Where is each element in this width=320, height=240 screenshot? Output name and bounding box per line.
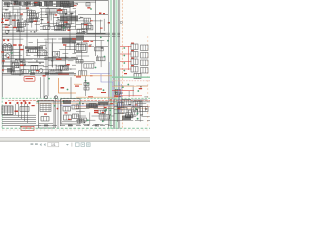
red cluster a bbox=[94, 110, 99, 111]
green RJ1 bbox=[79, 102, 81, 104]
module box M2 outline bbox=[61, 99, 80, 125]
red label in upper-middle wiring field #1 bbox=[55, 14, 57, 15]
orange dashed rail right edge bbox=[147, 36, 149, 128]
orange corner wire bbox=[112, 85, 148, 87]
green test point in bottom-right wiring field #2 bbox=[109, 110, 111, 112]
red feed wire row 1 bbox=[120, 46, 132, 48]
orange band wire 2 bbox=[74, 83, 82, 85]
connector X1 block bbox=[44, 1, 53, 6]
drop wire V44 bbox=[43, 77, 45, 98]
fuse label 10A bbox=[5, 27, 9, 28]
red band rail bbox=[8, 99, 150, 101]
green test point in bottom-right wiring field #1 bbox=[105, 109, 107, 111]
page rail 5 bbox=[119, 0, 121, 129]
terminal bullet T6 bbox=[28, 102, 30, 104]
relay row junction 1 bbox=[123, 47, 125, 49]
label A4r bbox=[72, 38, 76, 39]
bus wire row A bbox=[2, 58, 44, 60]
statusbar white zone bbox=[0, 131, 150, 150]
blue band rail bbox=[60, 104, 140, 106]
inter-box wire Va bbox=[55, 96, 57, 128]
relay label K8 bbox=[64, 22, 68, 23]
margin symbol glyph bbox=[120, 21, 122, 23]
fuse label 7.5A bbox=[13, 27, 17, 28]
long bus V27 bbox=[26, 2, 28, 56]
relay row label 1 bbox=[131, 43, 134, 44]
shield box U1 bbox=[75, 43, 88, 53]
relay label extra bbox=[124, 73, 127, 74]
relay K34 block bbox=[140, 107, 148, 112]
module M1 wire a bbox=[39, 123, 53, 125]
bottom row blob 2 bbox=[68, 124, 73, 126]
bus wire row B bbox=[2, 61, 44, 63]
terminal bullet T4 bbox=[20, 102, 22, 104]
relay label K11 bbox=[20, 65, 24, 66]
schematic page background bbox=[0, 0, 150, 131]
connector X2 block bbox=[56, 1, 74, 7]
top connector strip bbox=[3, 1, 78, 8]
statusbar grey bar bottom edge bbox=[0, 140, 150, 143]
relay row junction 4 bbox=[123, 70, 125, 72]
ic U1 inner bbox=[76, 45, 86, 51]
orange band wire 1 bbox=[74, 75, 112, 77]
drop wire V40 bbox=[40, 77, 42, 98]
red label in bottom-right wiring field #2 bbox=[104, 107, 107, 108]
red wire right band bbox=[112, 90, 134, 92]
bus row BL1 bbox=[2, 114, 36, 116]
orange band wire low bbox=[76, 96, 118, 98]
bottom row blob 3 bbox=[95, 124, 99, 126]
statusbar grey bar bbox=[0, 137, 150, 141]
hatched module A5 bbox=[2, 106, 13, 115]
relay label K14 bbox=[67, 64, 70, 65]
red terminal bullet L2 bbox=[7, 39, 9, 41]
toolbar prev page arrow bbox=[44, 143, 46, 146]
module M2 relay c bbox=[64, 115, 72, 120]
label wire 58 bbox=[2, 60, 5, 61]
green RJ3 bbox=[87, 119, 89, 121]
relay label K13 bbox=[56, 59, 62, 60]
drop wire BL4 bbox=[24, 104, 26, 121]
page bottom red tick edge bbox=[2, 129, 150, 131]
relay K15 block bbox=[131, 44, 138, 50]
bottom-right wiring field bbox=[76, 103, 114, 125]
upper-left wiring field bbox=[2, 9, 40, 32]
red feed wire row 2 bbox=[120, 53, 132, 55]
label mid q bbox=[68, 30, 71, 31]
page frame left lower green dashed bbox=[1, 97, 3, 129]
horn H1 symbol bbox=[39, 69, 43, 73]
green test point in corner wiring field #2 bbox=[137, 118, 139, 120]
module A3 block bbox=[60, 16, 78, 22]
module M2 relay b bbox=[72, 105, 79, 109]
green rail horizontal right bbox=[112, 76, 150, 78]
terminal bullet T2 bbox=[9, 102, 11, 104]
bus junction blob B bbox=[45, 72, 49, 74]
lamp E1 symbol bbox=[3, 44, 7, 48]
mini box MB2 bbox=[84, 87, 89, 90]
svg-text:1/1: 1/1 bbox=[51, 143, 56, 147]
orange band rail bbox=[36, 103, 118, 105]
test point TP8 bbox=[48, 78, 50, 80]
drop wire BL2 bbox=[18, 104, 20, 117]
long bus V95 bbox=[95, 0, 97, 56]
mini box MB1 bbox=[84, 83, 89, 86]
module M1 relay bbox=[41, 117, 49, 122]
ink band rail bbox=[36, 101, 150, 103]
junction green BR bbox=[137, 113, 139, 115]
relay K35 block bbox=[118, 108, 127, 114]
red label in corner wiring field #2 bbox=[135, 104, 138, 105]
connector X5 block bbox=[4, 2, 10, 6]
relay K19 block bbox=[131, 59, 138, 65]
right mid band field bbox=[114, 86, 148, 97]
test point TP2 bbox=[100, 37, 102, 39]
lamp label 56b bbox=[19, 44, 23, 45]
module A9 block bbox=[122, 116, 131, 121]
toolbar zoom in button bbox=[81, 143, 85, 147]
statusbar grey bar top edge bbox=[0, 136, 150, 139]
bus wire row 2 bbox=[2, 74, 76, 76]
relay row junction 2 bbox=[123, 55, 125, 57]
green RJ2 bbox=[105, 109, 107, 111]
red feed vertical bbox=[128, 46, 130, 70]
test point TP3 bbox=[107, 40, 109, 42]
mid-right wiring field bbox=[76, 40, 108, 76]
small connector TR bbox=[86, 3, 90, 7]
relay label K4 bbox=[20, 14, 23, 15]
ground label 31b bbox=[43, 75, 46, 76]
relay K22 block bbox=[141, 68, 149, 74]
module A4 right wing bbox=[76, 36, 84, 41]
mid-center wiring field bbox=[48, 38, 76, 74]
relay row label 2 bbox=[131, 50, 134, 51]
red label in bottom-right wiring field #1 bbox=[110, 103, 113, 104]
red dash RB2 bbox=[101, 92, 106, 93]
drop wire V71 bbox=[70, 77, 72, 98]
red flag box bbox=[24, 76, 35, 81]
inter-box wire Vb bbox=[57, 99, 59, 128]
bottom-left dark cluster bbox=[7, 68, 15, 73]
red corner wire bbox=[114, 95, 142, 97]
mini wire MB bbox=[85, 76, 87, 96]
connector label X10 bbox=[1, 51, 4, 52]
drop wire BL1 bbox=[15, 104, 17, 115]
relay K16 block bbox=[141, 45, 149, 51]
red label bl bbox=[32, 105, 35, 106]
signal wire blue V6 bbox=[120, 84, 122, 112]
relay K33 block bbox=[133, 101, 142, 107]
bus wire row 1 bbox=[2, 72, 76, 74]
pink dashed rail right bbox=[112, 80, 150, 82]
label RR1 bbox=[88, 96, 93, 97]
green RJ4 bbox=[102, 120, 104, 122]
orange drop wire bbox=[59, 78, 77, 93]
module M1 hatched sub-box bbox=[40, 104, 51, 112]
toolbar mode glyph 1 bbox=[31, 143, 34, 145]
corner wiring field bbox=[114, 100, 150, 122]
connector label X8 bbox=[1, 22, 4, 23]
green RB1 bbox=[103, 89, 105, 91]
test point TPl2 bbox=[29, 70, 31, 72]
signal wire blue V1 bbox=[109, 62, 111, 100]
label near blue wire bbox=[90, 75, 93, 76]
page frame left bbox=[1, 0, 3, 97]
module M2 top block bbox=[63, 100, 71, 104]
module label A2 bbox=[57, 10, 63, 12]
test point TP10b bbox=[87, 83, 89, 85]
orange band rail 2 bbox=[75, 107, 148, 109]
red label in upper-middle wiring field #2 bbox=[47, 22, 49, 23]
page bottom green dashed edge bbox=[2, 127, 150, 129]
red bullet UL bbox=[2, 18, 4, 20]
bus row BL5 bbox=[2, 123, 36, 125]
green test point in right mid band field #1 bbox=[137, 90, 139, 92]
page rail 4 bbox=[118, 0, 120, 129]
terminal bullet T3 bbox=[16, 102, 18, 104]
junction block row bbox=[25, 46, 43, 49]
bus row BL6 bbox=[2, 125, 36, 127]
connector label X9 bbox=[20, 49, 23, 50]
bus wire row C bbox=[2, 65, 44, 67]
drop wire BL3 bbox=[21, 104, 23, 119]
label RR2 bbox=[110, 99, 113, 100]
sensor B6 box bbox=[76, 60, 83, 64]
bus row BL2 bbox=[2, 116, 36, 118]
red flag text bbox=[26, 78, 34, 79]
switch label S3 bbox=[26, 8, 29, 9]
junction node N2 bbox=[2, 69, 4, 71]
main bus wire L3 bbox=[2, 35, 120, 37]
bus row BL3 bbox=[2, 118, 36, 120]
highlight text HL1 bbox=[23, 128, 32, 129]
terminal 85 label bbox=[108, 22, 110, 24]
test point TPl1 bbox=[11, 52, 13, 54]
page rail 1 bbox=[108, 0, 110, 129]
relay K11b box bbox=[15, 60, 25, 66]
fuse label 30A bbox=[5, 20, 9, 21]
red cluster c bbox=[102, 112, 105, 113]
terminal bullet T5 bbox=[24, 102, 26, 104]
main bus wire L1 bbox=[2, 32, 120, 34]
test point TP1 bbox=[90, 8, 92, 10]
terminal 87 label bbox=[99, 13, 101, 15]
connector ring CR2 bbox=[55, 96, 58, 99]
relay K20 block bbox=[141, 60, 149, 66]
red cluster b bbox=[94, 112, 99, 113]
test point TP9 bbox=[67, 89, 69, 91]
junction red M4 bbox=[57, 108, 59, 110]
relay K21 block bbox=[131, 67, 138, 73]
toolbar first page arrow bbox=[40, 143, 42, 146]
connector X6 block bbox=[24, 2, 31, 6]
relay K18 block bbox=[141, 53, 149, 59]
fuse label 15A bbox=[12, 20, 16, 21]
red label in corner wiring field #1 bbox=[117, 108, 120, 109]
module M1 wire b bbox=[39, 125, 53, 127]
horn H2 symbol bbox=[5, 30, 9, 34]
relay K32 block bbox=[122, 100, 131, 106]
green dashed band rail bbox=[2, 97, 150, 99]
green test point in right mid band field #2 bbox=[122, 86, 124, 88]
red terminal bullet L1 bbox=[3, 39, 5, 41]
module box M1 outline bbox=[39, 101, 55, 129]
orange dashed rail bbox=[121, 0, 123, 129]
relay row junction 3 bbox=[123, 62, 125, 64]
toolbar dropdown arrow bbox=[66, 144, 69, 146]
junction green BR2 bbox=[127, 84, 129, 86]
connector ring CR1 bbox=[45, 96, 48, 99]
junction green B2 bbox=[24, 131, 26, 133]
long bus V70 bbox=[69, 4, 71, 50]
module label A5 bbox=[15, 111, 19, 113]
relay K23b block bbox=[134, 74, 141, 79]
cluster label CL bbox=[75, 86, 79, 87]
wire W15r bbox=[78, 14, 108, 16]
toolbar mode glyph 2 bbox=[35, 143, 38, 145]
red label in upper-right wiring field #2 bbox=[90, 19, 93, 22]
signal wire blue V5 bbox=[118, 82, 120, 112]
module A8b block bbox=[98, 102, 108, 106]
corner red label bbox=[139, 88, 142, 89]
connector X4 block bbox=[14, 2, 21, 6]
terminal 86 label bbox=[103, 13, 105, 14]
label terminal 15b bbox=[91, 41, 94, 42]
junction node N1 bbox=[8, 57, 10, 59]
junction green M1 bbox=[37, 101, 39, 103]
test point TP4 bbox=[104, 56, 106, 58]
upper-middle wiring field bbox=[40, 8, 76, 31]
label terminal 15 bbox=[83, 41, 89, 42]
red feed wire row 4 bbox=[120, 68, 132, 70]
red label in top connector strip #1 bbox=[14, 4, 16, 5]
red label in top connector strip #2 bbox=[74, 4, 77, 7]
toolbar separator tick bbox=[71, 143, 74, 147]
bus junction blob A bbox=[30, 72, 35, 75]
test point TP5 bbox=[95, 67, 97, 69]
bus row BL4 bbox=[2, 121, 36, 123]
upper-right wiring field bbox=[76, 17, 106, 34]
bottom component row wire bbox=[36, 125, 116, 127]
lamp label 56a bbox=[13, 44, 17, 45]
green rail A bbox=[110, 0, 112, 129]
module M2 red label bbox=[65, 112, 68, 113]
node label 31 bbox=[35, 2, 38, 3]
relay label K12b bbox=[63, 44, 66, 45]
junction green M3 bbox=[54, 105, 56, 107]
red band rail 2 bbox=[75, 106, 150, 108]
module M2 relay a bbox=[63, 107, 71, 112]
switch label S2 bbox=[34, 21, 37, 22]
signal wire blue H1 bbox=[90, 73, 110, 75]
red label in upper-right wiring field #1 bbox=[100, 28, 103, 29]
red dash RB1 bbox=[97, 89, 102, 90]
valve label RV bbox=[61, 87, 65, 89]
sensor label B2 bbox=[84, 24, 88, 25]
inter-box wire Vc bbox=[60, 99, 62, 126]
connector X3 block bbox=[34, 2, 42, 7]
signal wire blue V2 bbox=[111, 70, 113, 100]
module M2 red label 2 bbox=[68, 119, 71, 120]
red label in right mid band field #1 bbox=[116, 96, 119, 97]
mid-left wiring field bbox=[2, 39, 48, 76]
component row mid bbox=[44, 57, 78, 60]
motor label M1 bbox=[36, 70, 39, 71]
relay K36 block bbox=[129, 110, 138, 115]
long bus V13 bbox=[12, 2, 14, 64]
test point TP10 bbox=[85, 80, 87, 82]
green test point in corner wiring field #1 bbox=[135, 108, 137, 110]
lamp E3 symbol bbox=[6, 54, 10, 58]
red band label bbox=[76, 76, 81, 77]
toolbar pan button bbox=[76, 143, 80, 147]
drop wire BL5 bbox=[27, 104, 29, 123]
red feed wire row 3 bbox=[120, 61, 132, 63]
junction green M2 bbox=[62, 101, 64, 103]
ic label U1 bbox=[89, 46, 92, 47]
toolbar page field bbox=[48, 142, 59, 146]
toolbar zoom out button bbox=[87, 143, 91, 147]
top thin wire bbox=[72, 1, 96, 3]
relay row label 4 bbox=[131, 65, 134, 66]
lamp E2 symbol bbox=[7, 44, 11, 48]
red label bl2 bbox=[23, 101, 26, 102]
relay row label 3 bbox=[131, 58, 134, 59]
module M1 red label bbox=[44, 114, 47, 115]
module A8 block bbox=[86, 104, 98, 109]
module M2 wire bbox=[62, 121, 79, 123]
relay K17 block bbox=[131, 52, 138, 58]
highlight red box HL1 bbox=[21, 126, 34, 130]
green rail B bbox=[115, 0, 117, 129]
page frame top bbox=[2, 0, 108, 2]
module M2 relay d bbox=[73, 114, 79, 119]
junction green B1 bbox=[20, 126, 22, 128]
module A4 block bbox=[62, 38, 76, 44]
red label in right mid band field #2 bbox=[114, 95, 117, 96]
label top right bbox=[87, 7, 90, 8]
relay BL box bbox=[20, 107, 29, 112]
page rail 3 bbox=[114, 0, 116, 129]
signal wire purple L bbox=[101, 74, 113, 99]
power wire 30 segment bbox=[58, 73, 69, 76]
main bus wire L2 bbox=[2, 34, 120, 36]
long bus V48 bbox=[47, 4, 49, 96]
long bus V20 bbox=[19, 2, 21, 76]
terminal bullet T1 bbox=[5, 102, 7, 104]
bottom row blob 1 bbox=[44, 124, 48, 126]
page rail 2 bbox=[112, 0, 114, 129]
test point TPm bbox=[63, 27, 65, 29]
